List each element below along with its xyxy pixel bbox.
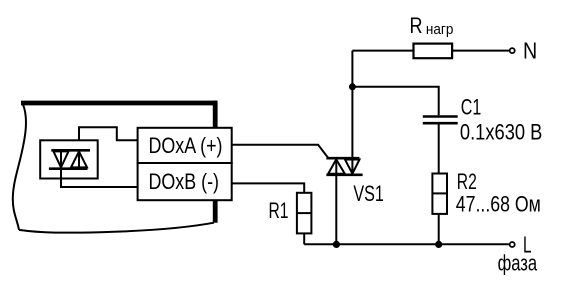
svg-text:0.1x630 В: 0.1x630 В xyxy=(460,120,543,145)
svg-text:VS1: VS1 xyxy=(353,181,384,206)
svg-text:N: N xyxy=(523,37,537,63)
svg-text:DOxB (-): DOxB (-) xyxy=(149,169,220,194)
svg-text:C1: C1 xyxy=(461,94,482,119)
svg-text:R2: R2 xyxy=(457,169,477,194)
svg-text:фаза: фаза xyxy=(498,250,538,275)
svg-text:R1: R1 xyxy=(269,198,289,223)
svg-text:47...68 Ом: 47...68 Ом xyxy=(456,192,541,217)
svg-text:R: R xyxy=(410,13,423,38)
svg-text:DOxA (+): DOxA (+) xyxy=(149,133,223,158)
svg-text:нагр: нагр xyxy=(426,21,454,38)
